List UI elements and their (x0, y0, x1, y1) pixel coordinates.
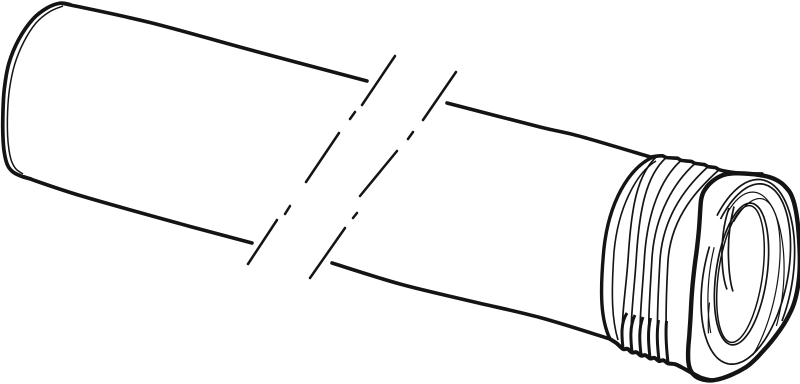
socket rib 5 lower thick part (657, 320, 659, 361)
socket shoulder inner thin arc (612, 161, 656, 340)
socket rib 1 (622, 156, 657, 348)
pipe top edge right section (447, 103, 652, 158)
socket top silhouette with rib teeth (650, 156, 762, 174)
socket rib 6 lower thick part (666, 321, 668, 363)
pipe bottom edge left section (24, 177, 252, 243)
socket rib 1 lower thick part (622, 313, 627, 349)
socket mouth rim ring 2 (701, 184, 790, 364)
socket mouth inner ring 2 part 1 (708, 303, 709, 334)
seal highlight arc left (722, 208, 729, 290)
socket mouth inner ring 2 part 2 (734, 199, 781, 356)
socket bottom silhouette scalloped (610, 339, 712, 380)
socket rib 4 (649, 164, 695, 359)
pipe left end outer rim (3, 3, 70, 179)
socket rib 2 lower thick part (631, 315, 635, 352)
socket mouth outer rim outline (688, 173, 800, 380)
pipe left end inner rim (7, 6, 63, 174)
pipe top edge left section (64, 4, 367, 81)
socket rib 5 (657, 167, 708, 361)
socket rib 3 lower thick part (640, 317, 643, 355)
seal highlight arc right (728, 207, 734, 292)
socket bore edge outer (714, 203, 768, 345)
socket mouth inner ring 1 part 2 (727, 192, 784, 326)
socket bore edge inner (717, 206, 765, 343)
break line 1 (dash-dot) (248, 56, 395, 264)
socket shoulder arc (602, 158, 652, 340)
socket mouth inner ring 1 part 1 (708, 247, 714, 333)
socket rib 3 (640, 161, 681, 356)
socket rib 2 (631, 158, 666, 353)
socket rib 6 (666, 170, 719, 363)
pipe bottom edge right section (332, 263, 610, 339)
socket mouth rim ring 1 (717, 179, 795, 320)
socket rib 4 lower thick part (649, 318, 651, 358)
break line 2 (dash-dot) (310, 72, 456, 278)
